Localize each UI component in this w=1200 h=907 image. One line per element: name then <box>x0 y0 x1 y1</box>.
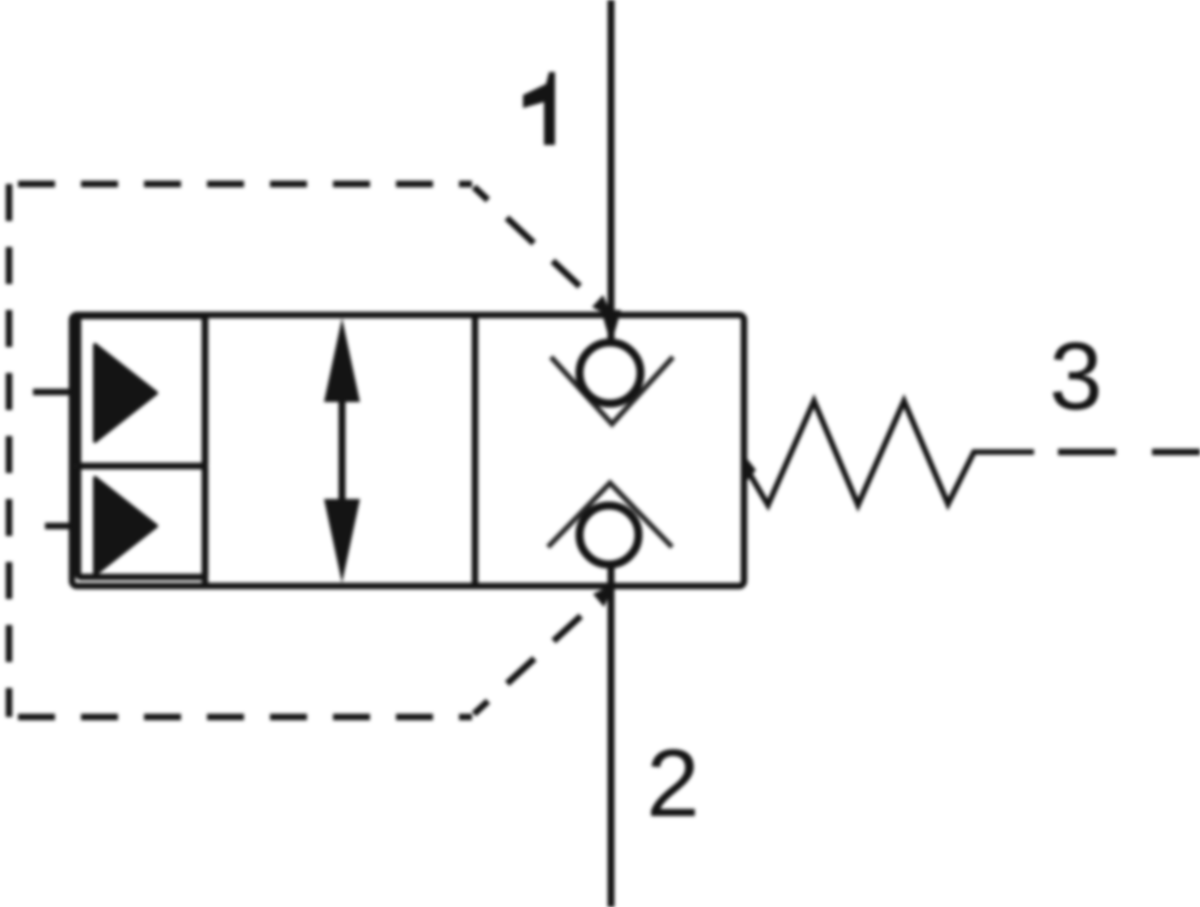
pilot stub top <box>33 389 72 396</box>
port 1 flow arrow <box>601 310 621 345</box>
pilot cell top box <box>78 316 205 466</box>
svg-text:3: 3 <box>1049 323 1102 430</box>
pilot line bottom diagonal <box>474 592 607 714</box>
pilot cell bottom box <box>78 466 205 577</box>
port 1 line <box>608 0 615 345</box>
pilot line bottom horizontal <box>9 714 472 721</box>
pilot line top horizontal <box>9 181 472 188</box>
shift arrow head down <box>324 499 360 583</box>
spring <box>745 401 1034 505</box>
pilot stub bottom <box>45 523 72 530</box>
pilot line left vertical <box>6 184 13 717</box>
pilot triangle bottom <box>95 478 156 574</box>
link ball2 to body <box>608 562 615 586</box>
pilot arrow bottom <box>593 584 614 607</box>
pilot triangle top <box>95 345 156 441</box>
shift arrow shaft <box>339 390 346 512</box>
check valve 2 seat <box>548 483 672 547</box>
port 2 line <box>608 586 615 907</box>
position divider left <box>202 315 209 586</box>
check valve 1 seat <box>551 357 673 424</box>
check valve 1 ball <box>580 343 641 404</box>
spring attachment dot <box>744 455 756 484</box>
valve body <box>72 315 744 586</box>
port 3 dashed line <box>1058 449 1200 456</box>
pilot line top diagonal <box>474 187 607 312</box>
shift arrow head up <box>324 318 360 402</box>
check valve 2 ball <box>580 506 639 565</box>
pilot arrow top <box>592 295 613 318</box>
port 1 label <box>523 72 555 145</box>
svg-text:2: 2 <box>646 730 699 837</box>
position divider right <box>472 315 479 586</box>
